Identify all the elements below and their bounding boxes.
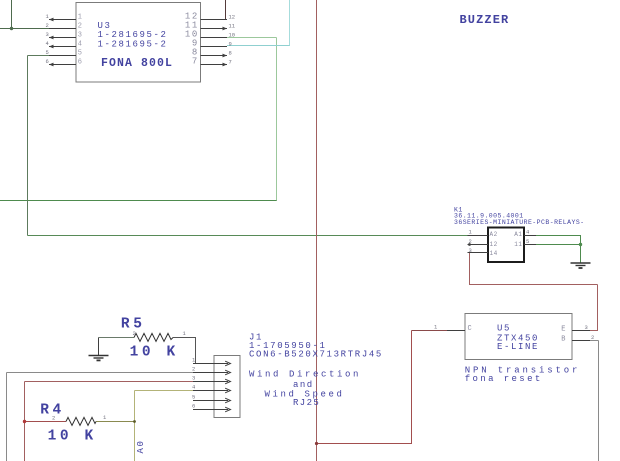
svg-text:6: 6 [46,58,49,65]
svg-text:2: 2 [46,22,49,29]
svg-text:2: 2 [469,238,472,245]
svg-text:11: 11 [229,23,236,30]
svg-text:11: 11 [514,241,522,248]
svg-text:Wind Direction: Wind Direction [249,370,361,380]
svg-text:36SERIES-MINIATURE-PCB-RELAYS-: 36SERIES-MINIATURE-PCB-RELAYS- [454,219,585,226]
svg-text:A2: A2 [490,231,498,238]
svg-text:10 K: 10 K [48,429,97,445]
svg-text:3: 3 [469,247,472,254]
svg-text:5: 5 [46,49,49,56]
svg-text:2: 2 [192,366,195,373]
svg-text:5: 5 [192,394,195,401]
svg-text:6: 6 [78,59,84,67]
svg-text:8: 8 [229,50,232,57]
svg-text:B: B [561,336,566,344]
svg-text:4: 4 [78,41,84,49]
svg-text:U5: U5 [497,324,511,334]
svg-text:2: 2 [78,23,84,31]
svg-text:3: 3 [192,375,195,382]
svg-text:6: 6 [192,403,195,410]
svg-text:C: C [468,325,473,333]
svg-text:CON6-B520X713RTRJ45: CON6-B520X713RTRJ45 [249,350,383,360]
svg-text:3: 3 [585,324,588,331]
svg-text:E: E [561,326,566,334]
svg-text:E-LINE: E-LINE [497,342,539,352]
svg-text:5: 5 [526,238,529,245]
svg-text:14: 14 [490,250,498,257]
svg-text:1-281695-2: 1-281695-2 [98,40,168,50]
svg-text:2: 2 [133,330,136,337]
svg-text:2: 2 [52,415,55,422]
svg-text:7: 7 [192,57,199,67]
svg-text:A0: A0 [136,439,146,453]
svg-text:and: and [293,380,314,390]
svg-text:3: 3 [78,32,84,40]
svg-text:A1: A1 [514,231,522,238]
svg-text:10: 10 [229,32,236,39]
svg-text:12: 12 [229,14,236,21]
svg-text:BUZZER: BUZZER [460,13,510,27]
svg-text:FONA 800L: FONA 800L [101,57,173,70]
svg-text:7: 7 [229,59,232,66]
svg-text:10 K: 10 K [130,344,179,360]
svg-text:RJ25: RJ25 [293,398,320,408]
svg-text:1-281695-2: 1-281695-2 [98,30,168,40]
svg-text:2: 2 [591,334,594,341]
svg-text:9: 9 [229,41,232,48]
svg-text:fona reset: fona reset [465,374,543,384]
svg-text:3: 3 [46,31,49,38]
svg-text:1: 1 [78,14,84,22]
svg-text:5: 5 [78,50,84,58]
svg-text:12: 12 [490,241,498,248]
